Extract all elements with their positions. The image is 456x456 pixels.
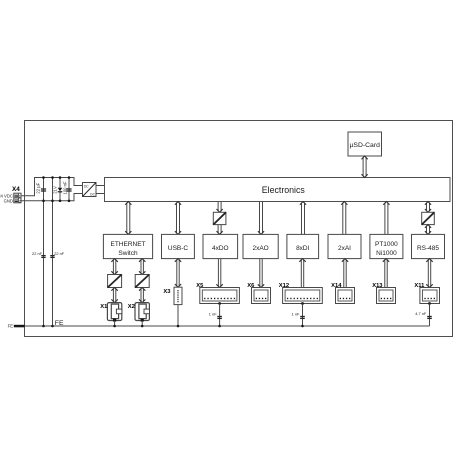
svg-text:4xDO: 4xDO	[212, 245, 229, 252]
svg-text:8xDI: 8xDI	[296, 245, 310, 252]
svg-text:24 VDC: 24 VDC	[0, 193, 13, 198]
svg-text:X5: X5	[196, 283, 204, 289]
svg-text:21V: 21V	[52, 186, 57, 194]
svg-text:2: 2	[19, 199, 21, 203]
svg-text:22 nF: 22 nF	[54, 251, 65, 256]
svg-text:Switch: Switch	[118, 250, 138, 257]
svg-text:ETHERNET: ETHERNET	[110, 241, 145, 248]
svg-text:1: 1	[19, 194, 21, 198]
svg-text:X1: X1	[100, 304, 108, 310]
svg-text:1 nF: 1 nF	[209, 311, 217, 316]
svg-text:X2: X2	[128, 304, 135, 310]
svg-text:X6: X6	[247, 283, 255, 289]
svg-text:X14: X14	[331, 283, 342, 289]
svg-text:2xAO: 2xAO	[252, 245, 268, 252]
svg-text:100 nF: 100 nF	[62, 181, 67, 194]
svg-text:DC: DC	[90, 192, 95, 196]
svg-text:X13: X13	[372, 283, 383, 289]
svg-text:FE: FE	[8, 324, 14, 329]
svg-text:DC: DC	[84, 185, 89, 189]
svg-text:1 nF: 1 nF	[292, 311, 300, 316]
svg-text:X11: X11	[414, 283, 425, 289]
svg-text:RS-485: RS-485	[417, 245, 439, 252]
svg-text:X4: X4	[12, 186, 20, 193]
svg-text:PT1000: PT1000	[375, 241, 398, 248]
svg-text:Ni1000: Ni1000	[376, 250, 397, 257]
svg-text:4,7 nF: 4,7 nF	[415, 311, 427, 316]
svg-text:FE: FE	[55, 320, 64, 327]
svg-text:USB-C: USB-C	[168, 245, 189, 252]
svg-text:22 nF: 22 nF	[32, 251, 43, 256]
svg-text:X3: X3	[163, 289, 171, 295]
svg-text:22 µF: 22 µF	[36, 182, 41, 193]
svg-text:µSD-Card: µSD-Card	[350, 142, 381, 149]
svg-text:GND: GND	[4, 199, 13, 204]
svg-text:X12: X12	[279, 283, 289, 289]
svg-text:2xAI: 2xAI	[338, 245, 351, 252]
svg-text:Electronics: Electronics	[262, 185, 306, 195]
